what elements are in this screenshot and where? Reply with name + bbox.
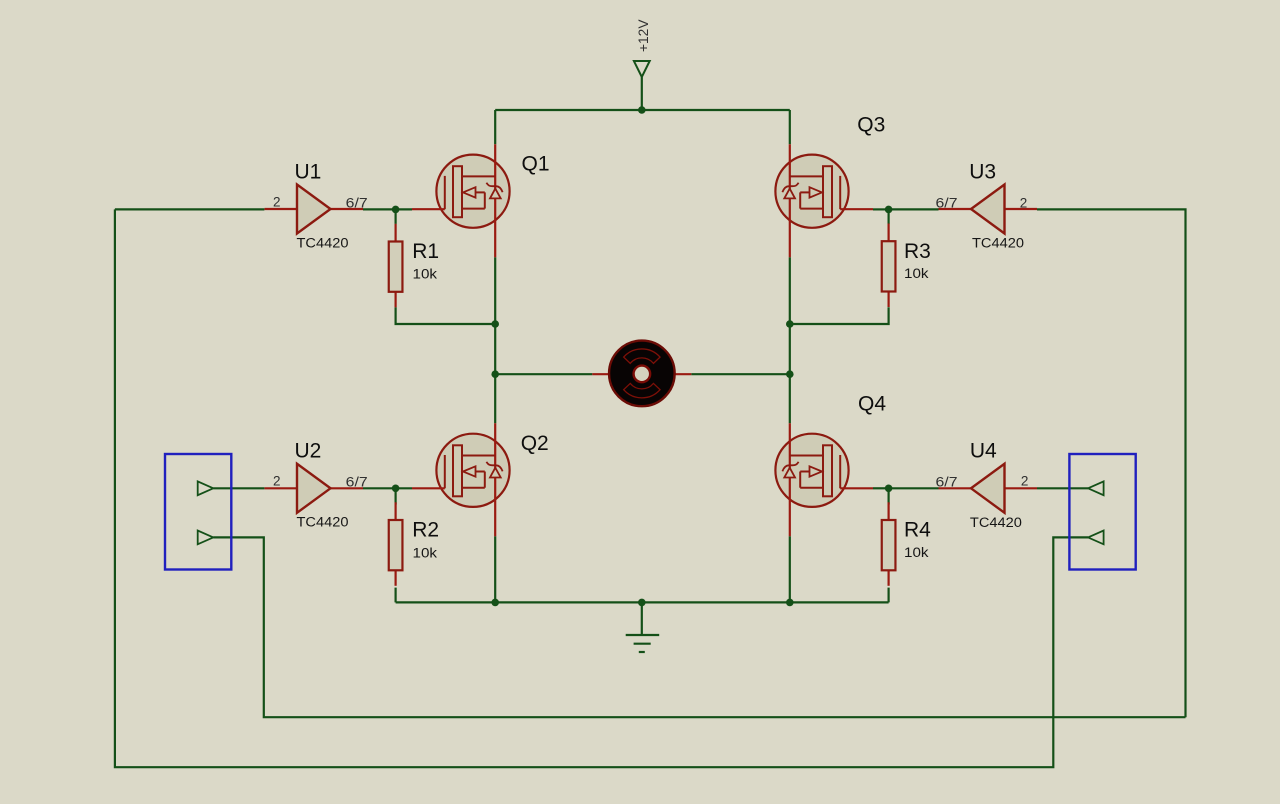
svg-text:TC4420: TC4420 [297,515,349,530]
svg-text:2: 2 [1020,196,1028,211]
svg-text:2: 2 [1021,474,1029,489]
svg-text:2: 2 [273,195,281,210]
svg-text:TC4420: TC4420 [297,236,349,251]
svg-text:R4: R4 [904,519,931,542]
svg-text:U1: U1 [295,161,322,184]
svg-text:U3: U3 [969,161,996,184]
svg-text:TC4420: TC4420 [972,236,1024,251]
svg-text:6/7: 6/7 [936,196,958,211]
svg-text:2: 2 [273,474,281,489]
svg-text:6/7: 6/7 [346,196,368,211]
svg-text:10k: 10k [904,545,929,560]
svg-text:Q4: Q4 [858,392,886,415]
svg-text:+12V: +12V [636,20,651,53]
svg-text:6/7: 6/7 [936,475,958,490]
svg-text:10k: 10k [413,545,438,560]
svg-text:10k: 10k [413,267,438,282]
svg-text:U4: U4 [970,440,997,463]
svg-text:R1: R1 [412,240,439,263]
svg-text:Q3: Q3 [857,113,885,136]
svg-text:R2: R2 [412,519,439,542]
svg-text:R3: R3 [904,240,931,263]
svg-text:6/7: 6/7 [346,475,368,490]
svg-text:10k: 10k [904,266,929,281]
svg-text:U2: U2 [295,440,322,463]
svg-text:Q2: Q2 [521,432,549,455]
svg-text:TC4420: TC4420 [970,515,1022,530]
svg-text:Q1: Q1 [522,152,550,175]
